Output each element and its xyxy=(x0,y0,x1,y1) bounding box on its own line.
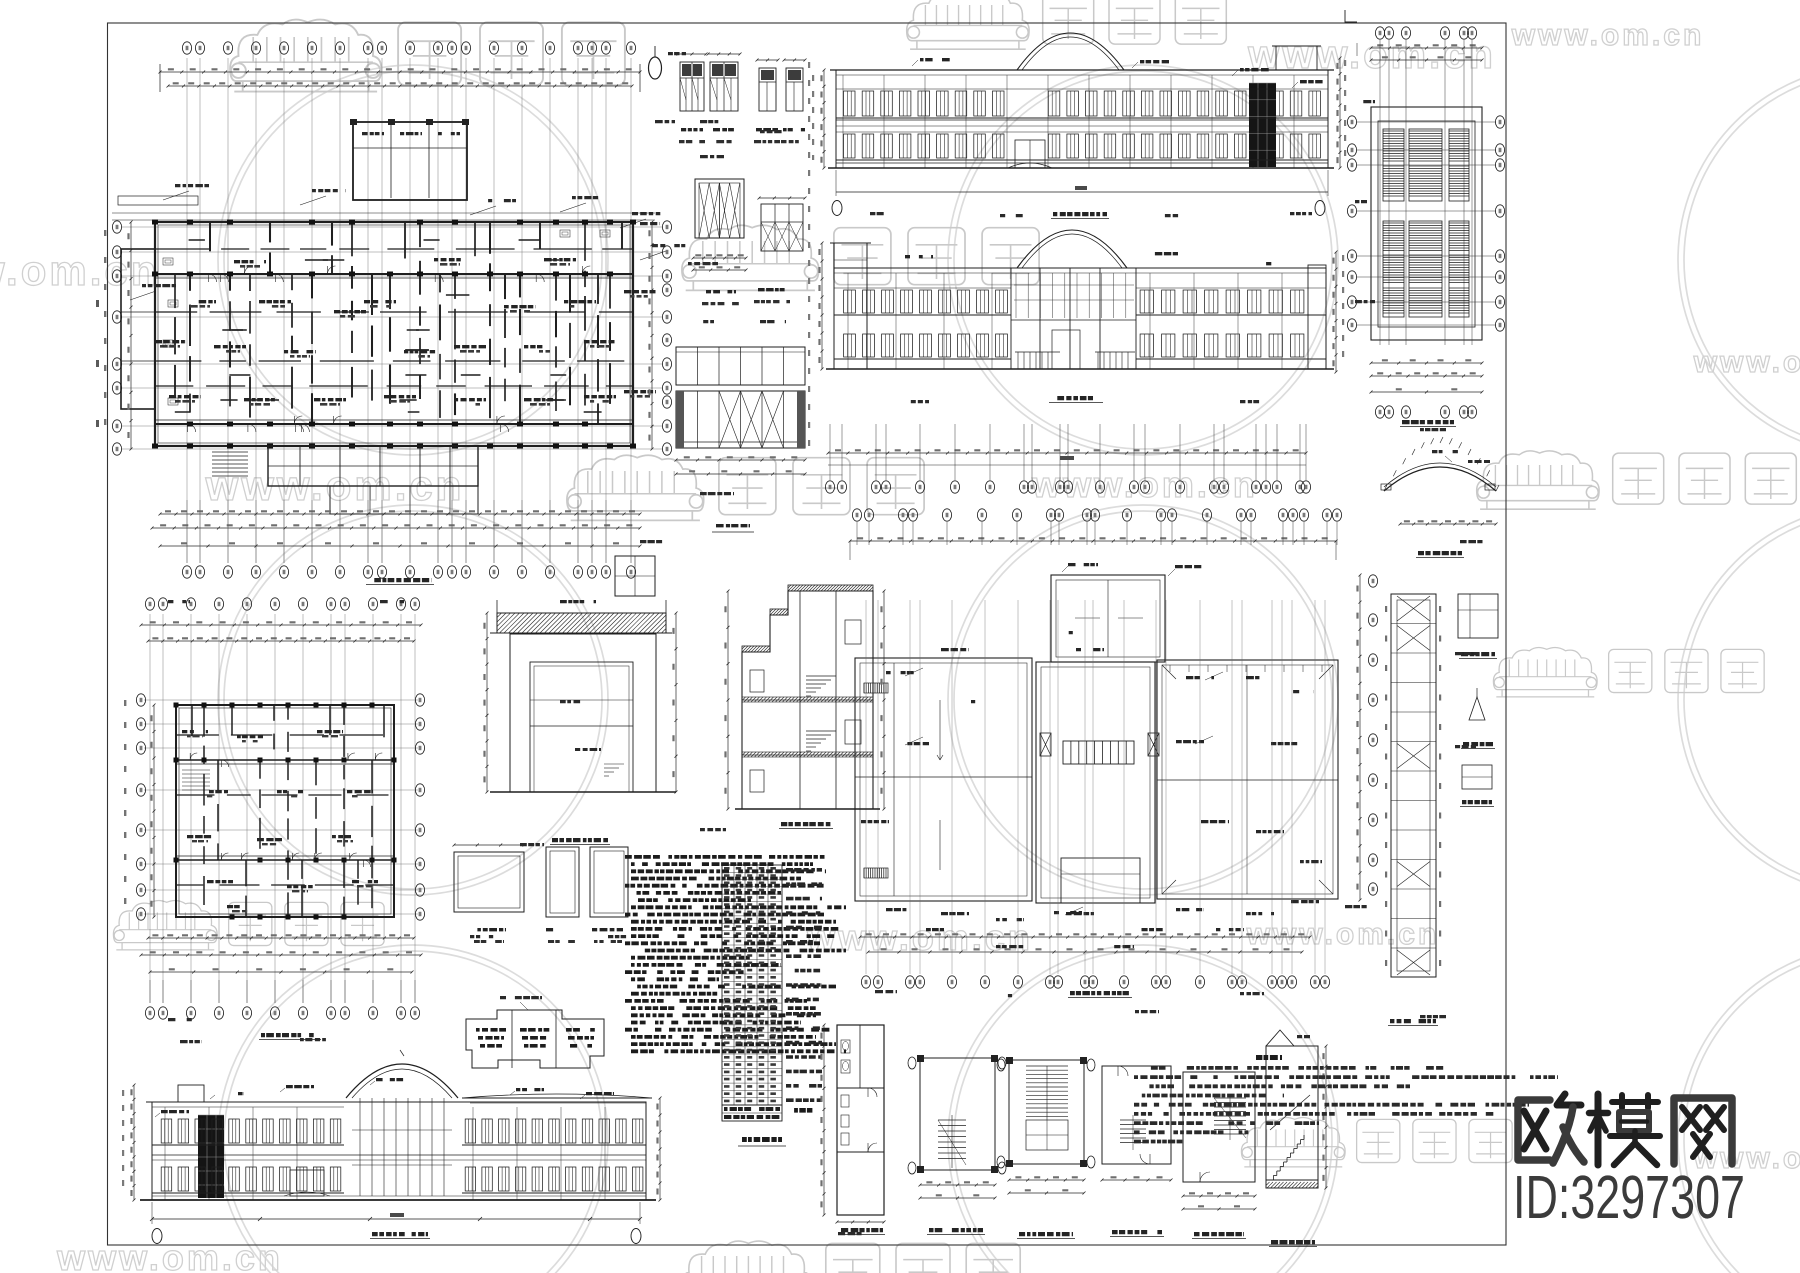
elevation C right dim strip xyxy=(1339,58,1341,168)
first floor plan bottom extension room xyxy=(330,486,478,514)
first floor plan wall stubs xyxy=(546,399,564,401)
stair plan 1 axes xyxy=(908,1057,916,1069)
QM detail 3 xyxy=(590,847,628,917)
svg-text:www.om.cn: www.om.cn xyxy=(1511,19,1705,52)
roof plan right roof corner diagonals xyxy=(1162,665,1176,679)
gutter strip detail outer xyxy=(1391,594,1436,977)
section K2 stepped outline xyxy=(742,591,873,809)
window detail C-1 xyxy=(680,62,704,111)
elevation C dark stair shaft xyxy=(1249,83,1276,167)
QM labels row1 xyxy=(472,928,506,931)
elevation C title xyxy=(1053,212,1107,216)
elevation C bottom dimension line xyxy=(836,191,1328,193)
section K1 inner room xyxy=(530,662,633,792)
louver panels upper group xyxy=(1383,129,1404,201)
door detail MD-1 xyxy=(695,179,744,238)
door window table right remark column xyxy=(786,868,822,872)
arc roof detail hatch ticks xyxy=(1384,485,1387,491)
stair plan 3 xyxy=(1102,1066,1171,1164)
second floor plan left axis col xyxy=(136,694,145,706)
louver tower inner rect xyxy=(1378,121,1475,327)
elevation D title xyxy=(1051,396,1101,400)
roof plan left roof xyxy=(855,658,1032,901)
roof plan left strip hatches xyxy=(864,683,888,693)
second floor plan right axis col xyxy=(415,694,424,706)
first floor plan gate house xyxy=(615,556,655,596)
elevation O body xyxy=(152,1102,646,1200)
stair plan 4 xyxy=(1183,1072,1255,1182)
louver tower axis row top xyxy=(1375,27,1384,39)
arc roof detail end pads xyxy=(1381,484,1391,490)
louver tower bottom dimension rows xyxy=(1371,362,1482,364)
stair plan 2 title xyxy=(1019,1232,1073,1236)
second floor plan top dimension rows xyxy=(141,624,421,626)
site logo character MO xyxy=(1589,1094,1660,1165)
first floor plan grid horizontals xyxy=(122,226,662,228)
second floor plan column dots xyxy=(174,703,179,708)
stair plan 4 title xyxy=(1194,1232,1244,1236)
stair plan 4 dims xyxy=(1183,1195,1255,1197)
svg-text:www.om.cn: www.om.cn xyxy=(1693,346,1800,379)
elevation O right dim strip xyxy=(659,1098,661,1200)
door window table cell text xyxy=(724,867,782,870)
second floor plan room labels xyxy=(182,730,208,733)
elevation O roof labels xyxy=(216,1092,244,1095)
gutter strip X braces xyxy=(1397,596,1430,621)
QM detail 2 xyxy=(546,847,579,917)
first floor plan right axis column xyxy=(662,221,671,233)
elevation O floor lines xyxy=(152,1154,646,1156)
toilet fixtures xyxy=(841,1040,850,1053)
section K2 title xyxy=(781,822,831,826)
first floor plan left wing xyxy=(121,249,155,409)
axis field upper verticals xyxy=(829,424,831,480)
toilet detail dims xyxy=(823,1025,825,1215)
arc roof detail curve xyxy=(1384,467,1496,491)
elevation D hall glazing mullions xyxy=(1015,273,1017,318)
elevation O bottom dimension xyxy=(152,1218,640,1220)
elevation O dome xyxy=(346,1064,458,1098)
stair plan 2 axes xyxy=(997,1059,1005,1071)
watermark sofa logo right margin xyxy=(1493,647,1597,696)
elevation C right tower cap xyxy=(1276,46,1317,70)
elevation D window rows left part xyxy=(844,290,856,313)
elevation O sill bands xyxy=(152,1144,344,1146)
window C-5 label xyxy=(758,288,786,291)
first floor plan top dimension lines xyxy=(160,71,640,73)
second floor plan bottom dimension rows xyxy=(148,937,414,939)
elevation O facade joints xyxy=(164,1107,166,1200)
section K1 body xyxy=(510,634,656,792)
watermark sofa logo bottom-left xyxy=(113,900,217,949)
first floor plan grid verticals xyxy=(186,58,188,563)
stair section ladder note xyxy=(1280,1035,1310,1038)
stair section dims xyxy=(1325,1046,1327,1188)
curtain wall label xyxy=(716,524,750,527)
elevation C sill bands xyxy=(836,117,1328,119)
stair plan 1 dims xyxy=(920,1184,995,1186)
watermark sofa logo mid-far-right xyxy=(1477,451,1599,509)
section K1 ground line xyxy=(490,791,676,793)
stair section detail xyxy=(1266,1046,1318,1188)
first floor plan title xyxy=(368,578,432,582)
elevation C ground line xyxy=(828,167,1334,169)
elevation D left tower xyxy=(834,243,867,369)
elevation O glass hall mullions xyxy=(359,1098,361,1196)
first floor plan bottom walls detail xyxy=(268,446,478,486)
roof plan leader lines xyxy=(905,668,923,676)
first floor plan bottom axis row xyxy=(182,566,191,578)
roof plan upper tower leaders xyxy=(1068,563,1098,566)
watermark sofa logo under logo text xyxy=(1241,1117,1345,1166)
window detail labels row xyxy=(681,128,703,131)
roof plan annotation labels scattered xyxy=(886,671,914,674)
elevation O parapet right xyxy=(462,1097,652,1099)
fire zone outline xyxy=(466,1010,604,1068)
section K1 title xyxy=(552,838,608,842)
elevation D hall interior stairs xyxy=(1017,352,1019,369)
roof plan right roof xyxy=(1157,660,1338,899)
curtain wall dimension rows xyxy=(676,459,805,461)
second floor plan grid horizontals xyxy=(144,699,418,701)
section K2 floor slab hatches xyxy=(742,697,873,702)
axis field lower dimension line xyxy=(850,540,1336,542)
first floor plan bottom dimension lines xyxy=(160,513,640,515)
elevation O end axis bubbles xyxy=(152,1229,162,1244)
door detail dimension row xyxy=(693,257,746,259)
roof plan top-right eave ticks xyxy=(1169,665,1171,672)
arc roof detail title xyxy=(1418,551,1462,555)
elevation D right tower xyxy=(1308,265,1326,369)
section K1 interior stairs xyxy=(603,779,605,781)
first floor plan axis row top xyxy=(182,42,191,54)
elevation D facade joints xyxy=(847,273,849,369)
second floor plan title xyxy=(261,1033,319,1037)
arc roof detail dimension row xyxy=(1400,523,1496,525)
louver tower axis lines xyxy=(1357,121,1496,123)
fire zone leader note xyxy=(500,996,542,999)
notes Q text lines xyxy=(1134,1066,1444,1070)
elevation D body outline xyxy=(834,268,1326,369)
first floor plan right small dim strip xyxy=(808,62,810,448)
QM detail 1 xyxy=(454,852,524,912)
elevation O left dim strip xyxy=(133,1085,135,1200)
first floor plan extra fixtures xyxy=(163,258,173,265)
first floor plan left dimensions xyxy=(130,222,132,449)
curtain wall MC-1 bottom band xyxy=(676,391,805,448)
first floor plan stairs bottom-left xyxy=(212,451,248,453)
QM detail 1 dims xyxy=(454,844,524,846)
first floor plan outer walls xyxy=(155,222,633,446)
louver tower side axis bubbles right xyxy=(1495,116,1504,128)
second floor plan stair detail xyxy=(182,769,210,771)
elevation O dark hatch strip xyxy=(198,1115,224,1198)
first floor plan interior horizontal walls xyxy=(155,248,210,250)
north arrow ellipse xyxy=(649,57,662,79)
gutter strip title xyxy=(1390,1019,1436,1023)
stair plan 1 title xyxy=(929,1228,983,1232)
watermark sofa logo top-middle xyxy=(907,0,1029,49)
elevation D roof labels xyxy=(905,255,933,258)
elevation C floor band lines xyxy=(836,119,1328,121)
elevation C left dim strip xyxy=(823,70,825,168)
small detail top right of strip xyxy=(1458,594,1498,638)
left margin dim specks xyxy=(124,700,126,920)
roof plan drain X right xyxy=(1148,733,1159,756)
elevation O window row lower xyxy=(161,1167,172,1191)
site logo character OU xyxy=(1518,1094,1584,1163)
louver panels lower group xyxy=(1383,221,1404,317)
scattered small dimension texts xyxy=(700,120,726,123)
table title door window schedule xyxy=(742,1137,782,1142)
louver tower top dimension rows xyxy=(1371,47,1482,49)
second floor plan door arcs xyxy=(242,853,249,860)
elevation D sill bands xyxy=(834,314,1011,316)
roof plan left roof arrows xyxy=(939,700,941,760)
elevation C entrance doors xyxy=(1015,140,1045,168)
watermark sofa logo mid-center xyxy=(567,455,704,520)
window detail C-5 xyxy=(761,204,803,251)
axis field long line xyxy=(828,464,1306,466)
axis field lower circle row xyxy=(852,509,861,521)
gutter strip side ticks xyxy=(1439,606,1441,612)
elevation O parapet left xyxy=(146,1101,344,1103)
roof plan ladder hatch xyxy=(1063,741,1134,764)
roof plan upper tower xyxy=(1051,575,1165,662)
stair plan 2 xyxy=(1009,1060,1084,1164)
toilet detail title xyxy=(841,1228,883,1232)
elevation O title xyxy=(372,1232,428,1236)
section K1 roof slab hatch xyxy=(497,613,666,633)
door detail MD-1 label xyxy=(706,290,736,293)
section K1 left dim strip xyxy=(486,613,488,792)
section K1 parapet marks xyxy=(496,600,498,613)
elevation C label texts on roof xyxy=(920,58,950,61)
elevation C window row upper xyxy=(844,91,856,116)
small detail mid right xyxy=(1462,765,1492,789)
elevation O window row upper xyxy=(161,1119,172,1143)
louver tower bottom axis row xyxy=(1375,406,1384,418)
stair plan 1 xyxy=(920,1058,995,1170)
roof plan middle roof xyxy=(1036,662,1155,903)
louver tower side axis bubbles left xyxy=(1347,116,1356,128)
first floor plan corridor walls xyxy=(155,273,633,275)
elevation D mid hall columns xyxy=(1010,268,1012,369)
section K2 roof hatches xyxy=(742,646,770,652)
section K2 ground line xyxy=(735,808,880,810)
first floor plan annotation leaders xyxy=(163,191,189,200)
elevation D dome arc xyxy=(1017,230,1127,268)
elevation C facade joints xyxy=(842,75,844,168)
section K2 window openings xyxy=(750,670,764,692)
louver tower title xyxy=(1402,420,1454,424)
left margin tiny marks xyxy=(96,300,99,460)
second floor plan axis row top xyxy=(145,598,154,610)
watermark sofa logo top-left xyxy=(230,20,381,92)
QM labels row2 xyxy=(474,940,504,943)
svg-text:www.om.cn: www.om.cn xyxy=(0,247,159,294)
svg-text:ID:3297307: ID:3297307 xyxy=(1513,1163,1745,1231)
fire zone dividers xyxy=(511,1010,513,1068)
first floor plan column dots xyxy=(152,220,158,225)
window detail C-4 xyxy=(786,68,803,111)
svg-text:www.om.cn: www.om.cn xyxy=(1246,918,1440,951)
window detail C-3 xyxy=(759,68,776,111)
elevation C body outline xyxy=(836,70,1328,168)
first floor plan left top lines xyxy=(112,212,655,214)
top right corner tick mark xyxy=(1345,10,1357,22)
stair section title xyxy=(1271,1240,1315,1244)
first floor plan left axis column xyxy=(112,221,121,233)
small cone detail xyxy=(1469,697,1485,720)
fire zone labels xyxy=(476,1028,506,1032)
door window table header rows xyxy=(722,1105,782,1121)
gutter strip cells xyxy=(1391,623,1436,625)
section K2 dim strips xyxy=(727,591,729,809)
roof plan bottom dimension rows xyxy=(860,936,1310,938)
elevation D left dim strip xyxy=(821,243,823,369)
stair plan 2 dims xyxy=(1009,1179,1084,1181)
axis field upper circle row xyxy=(825,481,834,493)
elevation C window row lower xyxy=(844,134,856,158)
first floor plan room labels xyxy=(184,300,216,303)
stair plan 3 dims xyxy=(1102,1179,1171,1181)
second floor plan outer walls xyxy=(176,705,394,917)
louver tower outer rect xyxy=(1371,107,1482,340)
section K2 inner walls xyxy=(799,591,801,809)
notes text paragraph lines xyxy=(625,855,830,859)
elevation O ground line xyxy=(140,1199,656,1201)
site logo character WANG xyxy=(1674,1098,1732,1164)
elevation D ground line xyxy=(826,368,1334,370)
svg-text:www.om.cn: www.om.cn xyxy=(56,1237,283,1273)
window detail C-2 xyxy=(710,62,738,111)
roof plan right dim column xyxy=(1359,575,1361,900)
roof plan drain X left xyxy=(1040,733,1051,756)
axis field lower verticals xyxy=(856,522,858,545)
notes Q title xyxy=(1256,1055,1282,1060)
second floor plan horizontal interior walls xyxy=(176,734,219,736)
second floor plan interior vertical walls xyxy=(191,705,193,736)
second floor plan corridor walls xyxy=(176,759,394,761)
elevation O entrance xyxy=(290,1170,324,1196)
door window table frame xyxy=(722,865,782,1105)
section K1 right dim strip xyxy=(675,613,677,792)
roof plan bottom axis row xyxy=(861,976,870,988)
arc roof detail labels xyxy=(1432,450,1458,453)
elevation C end axis bubbles xyxy=(832,201,842,216)
sheet border frame xyxy=(108,23,1507,1245)
first floor plan door arcs xyxy=(221,274,229,282)
elevation D window rows right part xyxy=(1140,290,1153,313)
first floor plan top wing xyxy=(353,122,467,200)
second floor plan bottom axis row xyxy=(145,1007,154,1019)
stair plan 3 title xyxy=(1112,1230,1162,1234)
toilet detail plan xyxy=(837,1025,884,1215)
watermark sofa logo bottom edge xyxy=(682,1241,812,1273)
roof plan title xyxy=(1070,991,1130,995)
roof plan middle inset xyxy=(1061,858,1140,903)
elevation D right dim strip xyxy=(1335,252,1337,372)
axis field upper dimension line xyxy=(828,452,1306,454)
section K2 stairs xyxy=(805,699,807,701)
first floor plan interior vertical walls xyxy=(174,274,176,308)
watermark sofa logo center xyxy=(682,225,819,290)
curtain wall MC-1 top band xyxy=(676,347,805,385)
elevation C dome arc xyxy=(1017,33,1124,70)
section K1 interior labels xyxy=(560,700,590,703)
